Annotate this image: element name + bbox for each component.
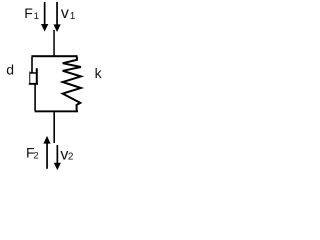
- svg-text:1: 1: [34, 11, 39, 22]
- svg-text:F: F: [24, 5, 33, 21]
- svg-text:2: 2: [33, 150, 38, 161]
- svg-text:2: 2: [68, 152, 74, 163]
- svg-text:1: 1: [70, 11, 75, 22]
- svg-text:v: v: [61, 5, 69, 22]
- svg-text:k: k: [95, 65, 103, 81]
- svg-text:d: d: [6, 61, 14, 77]
